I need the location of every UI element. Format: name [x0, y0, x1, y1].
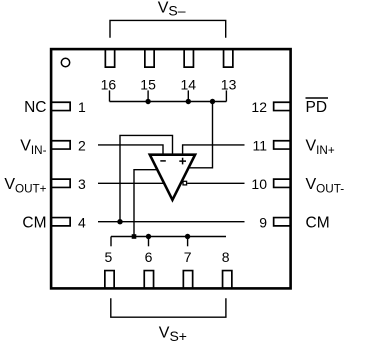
pin 11 pad: [274, 141, 290, 149]
pin 9 pad: [274, 218, 290, 226]
pin 10 pad: [274, 179, 290, 187]
svg-text:9: 9: [259, 214, 267, 230]
pin 1 pad: [52, 102, 70, 110]
pin 13 pad: [224, 50, 233, 68]
pin 14 pad: [184, 50, 193, 68]
svg-text:7: 7: [184, 249, 192, 265]
junction dot pin 15: [145, 99, 150, 104]
svg-text:16: 16: [101, 77, 117, 93]
svg-text:14: 14: [181, 77, 197, 93]
svg-text:PD: PD: [306, 99, 328, 116]
pin 12 pad: [274, 102, 290, 110]
stub pin 7: [187, 237, 189, 247]
wire pin 2 VIN- to inverting input: [98, 145, 163, 154]
svg-text:CM: CM: [306, 214, 330, 231]
pin 7 pad: [183, 271, 192, 288]
stub pin 13: [225, 90, 227, 101]
top inner bus wire (pins 16,15,14,13 common): [110, 101, 227, 103]
wire CM tap to amp top center: [120, 135, 173, 221]
stub pin 15: [147, 90, 149, 101]
wire pin 3 VOUT+ to amp left slant: [98, 182, 165, 184]
stub pin 6: [148, 237, 150, 247]
VS+ bus bracket (pins 5-8): [111, 298, 226, 317]
junction dot pin 7: [185, 234, 190, 239]
svg-text:VS+: VS+: [159, 324, 187, 343]
wire VS- to amp right side: [188, 102, 213, 168]
pin 6 pad: [144, 271, 153, 288]
pin-1 indicator circle: [61, 58, 69, 66]
svg-text:3: 3: [78, 176, 86, 192]
svg-text:13: 13: [221, 77, 237, 93]
stub pin 16: [109, 90, 111, 101]
wire pin 11 VIN+ to non-inverting input: [183, 145, 245, 154]
output square marker: [183, 181, 187, 185]
package outline U1 (QFN-16): [51, 49, 291, 288]
VS- bus bracket (pins 16-13): [110, 20, 226, 37]
svg-text:1: 1: [78, 99, 86, 115]
svg-text:8: 8: [222, 249, 230, 265]
junction square VS+ feed: [132, 234, 137, 239]
svg-text:5: 5: [105, 249, 113, 265]
svg-text:2: 2: [78, 138, 86, 154]
PD overline: [306, 97, 329, 99]
svg-text:12: 12: [251, 99, 267, 115]
minus input sign: [160, 160, 166, 162]
svg-text:4: 4: [78, 214, 86, 230]
pin 5 pad: [105, 271, 114, 288]
wire pin 10 VOUT- from output square: [187, 182, 244, 184]
svg-text:CM: CM: [22, 214, 46, 231]
svg-text:VS–: VS–: [158, 0, 186, 19]
pin 2 pad: [52, 141, 70, 149]
svg-text:10: 10: [251, 176, 267, 192]
bottom inner bus wire (pins 5,6,7,8 common): [111, 236, 226, 238]
svg-text:11: 11: [252, 138, 267, 154]
svg-text:15: 15: [140, 77, 156, 93]
stub pin 5: [110, 237, 112, 247]
svg-text:6: 6: [145, 249, 153, 265]
svg-text:NC: NC: [24, 99, 46, 116]
wire CM line pins 4-9: [98, 221, 245, 223]
plus input sign: [179, 158, 186, 165]
junction dot CM tap: [117, 219, 122, 224]
pin 16 pad: [105, 50, 114, 68]
wire VS+ to amp left side: [134, 170, 159, 237]
junction dot pin 6: [146, 234, 151, 239]
pin 8 pad: [223, 271, 232, 288]
junction dot VS- feed: [210, 99, 215, 104]
pin 15 pad: [145, 50, 154, 68]
stub pin 14: [187, 90, 189, 101]
pin 4 pad: [52, 218, 70, 226]
op-amp U1 triangle: [150, 155, 195, 200]
junction dot pin 14: [186, 99, 191, 104]
pin 3 pad: [52, 179, 70, 187]
